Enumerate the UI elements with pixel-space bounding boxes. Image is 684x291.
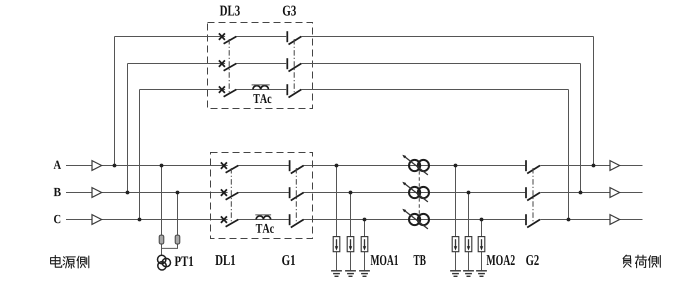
disconnector G3 pole 1 [287, 31, 301, 44]
label 负荷侧 (load side) [623, 255, 660, 268]
label DL1 [215, 255, 235, 265]
node bypass-B right [579, 191, 583, 195]
arrow load side phase C [610, 215, 620, 225]
arrow source side phase A [92, 161, 102, 171]
current transformer TAc (main) [255, 215, 274, 233]
ground MOA1-A [331, 271, 342, 277]
label 电源侧 (source side) [51, 255, 89, 268]
ground MOA2-A [450, 271, 461, 277]
wire phase A [66, 165, 643, 167]
node bypass-A right [592, 164, 596, 168]
disconnector G1 pole A [290, 160, 304, 173]
breaker box DL1/G1 (dashed enclosure) [211, 153, 313, 239]
surge arrester MOA2 phase B [465, 191, 472, 271]
DL3 gang linkage [228, 39, 230, 93]
breaker DL3 pole 3 [219, 86, 236, 96]
label phase B [54, 188, 61, 196]
regulating transformer TB phase A [402, 155, 429, 175]
arrow source side phase C [92, 215, 102, 225]
G1 gang linkage [295, 168, 297, 223]
label DL3 [220, 6, 240, 16]
arrow load side phase A [610, 161, 620, 171]
DL1 gang linkage [230, 168, 232, 223]
wire phase C [66, 219, 643, 221]
label G1 [282, 255, 295, 265]
wire bypass line 1 [115, 36, 594, 38]
fuse FU1 [159, 235, 164, 244]
surge arrester MOA1 phase A [333, 164, 340, 271]
current transformer TAc (bypass) [252, 85, 272, 103]
wire bypass left vertical 3 [139, 90, 141, 220]
disconnector G1 pole B [290, 187, 304, 200]
surge arrester MOA1 phase C [361, 218, 368, 271]
node bypass-A left [113, 164, 117, 168]
wire phase B [66, 192, 643, 194]
label G3 [283, 6, 296, 16]
label G2 [526, 255, 539, 265]
wire bypass left vertical 1 [114, 37, 116, 166]
ground MOA2-C [476, 271, 487, 277]
fuse FU2 [175, 235, 180, 244]
node bypass-B left [126, 191, 130, 195]
label phase C [54, 215, 60, 223]
disconnector G2 pole A [526, 160, 540, 173]
node bypass-C right [567, 218, 571, 222]
arrow source side phase B [92, 188, 102, 198]
label MOA2 [487, 255, 515, 265]
arrow load side phase B [610, 188, 620, 198]
voltage transformer PT1 [158, 255, 171, 270]
disconnector G2 pole C [526, 214, 540, 227]
label PT1 [175, 256, 193, 266]
ground MOA1-B [345, 271, 356, 277]
wire PT1 tap phase B with fuse lead [162, 193, 178, 249]
label phase A [54, 161, 61, 169]
ground MOA1-C [359, 271, 370, 277]
breaker DL3 pole 2 [219, 60, 236, 70]
disconnector G3 pole 3 [287, 84, 301, 97]
wire bypass line 2 [128, 63, 581, 65]
wire PT1 tap phase A with fuse lead [161, 166, 163, 256]
label MOA1 [371, 255, 398, 265]
wire bypass left vertical 2 [127, 64, 129, 193]
disconnector G3 pole 2 [287, 58, 301, 71]
G2 gang linkage [532, 168, 534, 223]
regulating transformer TB phase B [402, 182, 429, 202]
TB gang linkage [418, 171, 420, 214]
breaker DL1 pole A [221, 162, 238, 172]
wire bypass right vertical 2 [580, 64, 582, 193]
node bypass-C left [138, 218, 142, 222]
wire bypass line 3 [140, 89, 569, 91]
breaker DL1 pole C [221, 216, 238, 226]
breaker DL3 pole 1 [219, 33, 236, 43]
surge arrester MOA2 phase C [478, 218, 485, 271]
wire bypass right vertical 1 [593, 37, 595, 166]
wire bypass right vertical 3 [568, 90, 570, 220]
surge arrester MOA2 phase A [452, 164, 459, 271]
bypass box DL3/G3 (dashed enclosure) [208, 23, 313, 109]
surge arrester MOA1 phase B [347, 191, 354, 271]
disconnector G1 pole C [290, 214, 304, 227]
label TB [414, 255, 426, 265]
regulating transformer TB phase C [402, 209, 429, 229]
G3 gang linkage [293, 39, 295, 93]
breaker DL1 pole B [221, 189, 238, 199]
disconnector G2 pole B [526, 187, 540, 200]
ground MOA2-B [463, 271, 474, 277]
